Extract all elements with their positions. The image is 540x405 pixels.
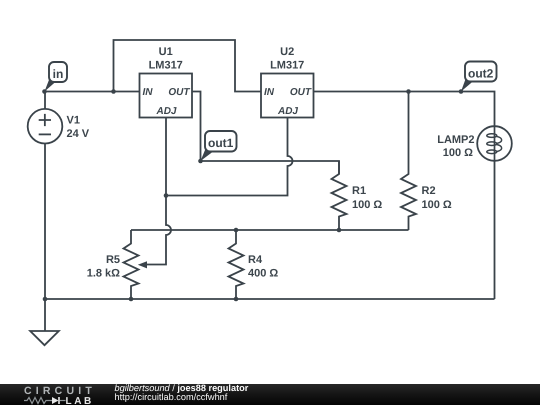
junction: input node dot [42, 89, 47, 94]
U1 box [140, 74, 193, 118]
wire: U2 ADJ down with hop over out1 wire, left to ADJ net [166, 118, 293, 196]
junction: ADJ net dot (U1 ADJ / U2 ADJ) [164, 193, 169, 198]
svg-text:LAMP2: LAMP2 [437, 134, 474, 146]
node flag "out2" [461, 62, 497, 92]
svg-text:in: in [53, 67, 64, 81]
node flag "out1" [201, 131, 237, 161]
wire: V1 top lead to input node [44, 92, 46, 109]
junction: out1 node dot [198, 159, 203, 164]
junction: R5 bottom dot [129, 297, 134, 302]
LAMP2 filament coil [494, 126, 496, 161]
node flag "in" [45, 62, 68, 92]
wire: out1 node to R1 top [201, 161, 340, 174]
svg-text:24 V: 24 V [67, 128, 90, 140]
footer black bar [0, 384, 540, 405]
wire: U1 ADJ down with hop over middle bus, to R5 wiper [147, 118, 172, 265]
svg-text:OUT: OUT [168, 87, 190, 98]
svg-text:ADJ: ADJ [277, 106, 298, 117]
wire: input node to U1 IN pin [45, 91, 140, 93]
junction: R2 top dot [406, 89, 411, 94]
wire: U2 OUT to lamp top [314, 92, 495, 127]
credit text [115, 384, 249, 403]
lamp LAMP2 circle [477, 126, 512, 161]
svg-text:V1: V1 [67, 115, 80, 127]
svg-text:R2: R2 [422, 185, 436, 197]
svg-text:out1: out1 [208, 136, 234, 150]
svg-text:OUT: OUT [290, 87, 312, 98]
potentiometer R5 [124, 230, 139, 299]
svg-text:100 Ω: 100 Ω [443, 147, 473, 159]
U2 box [261, 74, 314, 118]
svg-text:ADJ: ADJ [155, 106, 176, 117]
svg-text:LM317: LM317 [270, 60, 304, 72]
wire: V1 bottom lead down to ground [44, 144, 46, 332]
junction: out2 node dot [459, 89, 464, 94]
junction: R4 top dot [234, 228, 239, 233]
svg-text:R5: R5 [106, 254, 120, 266]
svg-text:R4: R4 [248, 254, 263, 266]
resistor R2 [401, 92, 416, 231]
svg-text:1.8 kΩ: 1.8 kΩ [87, 268, 120, 280]
svg-text:IN: IN [143, 87, 154, 98]
resistor R4 [229, 230, 244, 299]
junction: V1/bottom-bus dot [43, 297, 48, 302]
voltage source V1 circle [28, 109, 63, 144]
junction: R4 bottom dot [234, 297, 239, 302]
svg-text:400 Ω: 400 Ω [248, 268, 278, 280]
CircuitLab logo text CIRCUIT [24, 385, 96, 397]
svg-text:U2: U2 [280, 46, 294, 58]
resistor R1 [332, 161, 347, 230]
svg-text:out2: out2 [468, 67, 494, 81]
CircuitLab logo zigzag + diode icon [23, 396, 69, 405]
wire: middle bus y=230 from R5 top to R2 bottom [131, 229, 409, 231]
wire: top feedback loop from node A over U1 to U2 IN pin [114, 40, 262, 92]
CircuitLab logo text LAB [66, 396, 94, 405]
junction node A (top loop tap) [111, 89, 116, 94]
svg-text:100 Ω: 100 Ω [352, 199, 382, 211]
junction: R1 bottom dot [337, 228, 342, 233]
svg-text:U1: U1 [159, 46, 173, 58]
R5 wiper arrowhead [138, 261, 147, 268]
V1 plus sign [39, 114, 51, 126]
wire: lamp bottom lead to bottom bus [494, 161, 496, 299]
svg-text:100 Ω: 100 Ω [422, 199, 452, 211]
ground symbol [30, 331, 59, 345]
V1 minus sign [39, 133, 51, 135]
svg-text:IN: IN [264, 87, 275, 98]
wire: U1 OUT to out1 node [192, 92, 201, 162]
svg-text:LM317: LM317 [149, 60, 183, 72]
svg-text:R1: R1 [352, 185, 366, 197]
wire: bottom bus from V1 to lamp [45, 298, 495, 300]
